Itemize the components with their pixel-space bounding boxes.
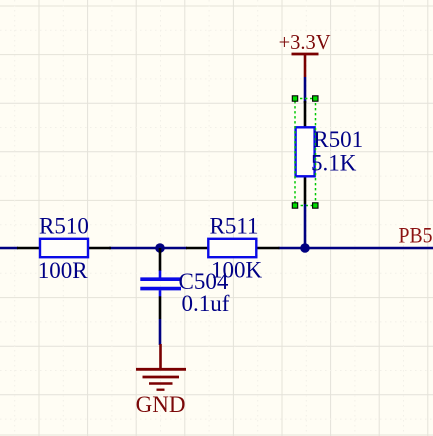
wire: R511 pin 2 to node B (279, 247, 306, 250)
ground GND (136, 344, 186, 390)
wire: node A to R511 pin 1 (160, 247, 187, 250)
net label GND (136, 392, 186, 417)
resistor R511 (186, 239, 280, 257)
wire: +3.3V to R501 pin 1 (304, 77, 307, 103)
wire: R501 pin 2 to node B (304, 204, 307, 248)
value label 100K (211, 258, 263, 283)
net label PB5 (399, 223, 433, 248)
designator label R501 (313, 127, 363, 152)
svg-text:GND: GND (136, 392, 186, 417)
value label 0.1uf (182, 291, 230, 316)
selection highlight R501 (292, 96, 318, 208)
designator label R511 (210, 214, 259, 239)
wire: R510 pin 2 to node A (109, 247, 161, 250)
svg-text:R511: R511 (210, 214, 259, 239)
svg-text:R510: R510 (39, 214, 89, 239)
designator label R510 (39, 214, 89, 239)
svg-text:PB5: PB5 (399, 223, 433, 248)
junction node B (300, 243, 310, 253)
svg-text:+3.3V: +3.3V (279, 30, 331, 54)
svg-text:100R: 100R (38, 258, 89, 283)
wire: C504 pin 2 to GND (159, 319, 162, 345)
resistor R501 (296, 101, 315, 204)
capacitor C504 (140, 248, 181, 319)
value label 100R (38, 258, 89, 283)
power port +3.3V (292, 54, 319, 77)
net label +3.3V (279, 30, 331, 54)
value label 5.1K (311, 151, 357, 176)
svg-text:5.1K: 5.1K (311, 151, 357, 176)
resistor R510 (17, 239, 111, 257)
svg-text:R501: R501 (313, 127, 363, 152)
wire: node B to PB5 right edge (305, 247, 433, 250)
junction node A (155, 243, 165, 253)
designator label C504 (179, 269, 229, 294)
svg-text:0.1uf: 0.1uf (182, 291, 230, 316)
wire: left entry to R510 pin 1 (0, 247, 18, 250)
